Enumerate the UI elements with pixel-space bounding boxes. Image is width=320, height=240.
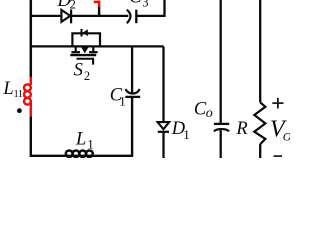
- wire: black stub below red jumper at node: [98, 7, 100, 17]
- wire: top branch right corner turning up (cropped at top): [136, 0, 164, 16]
- transistor S2: gate bar: [77, 58, 95, 60]
- svg-text:o: o: [206, 106, 213, 121]
- transistor S2: source lead and contact foot: [92, 47, 94, 52]
- plus sign of output polarity: [272, 98, 283, 109]
- transistor S2: drain lead and contact foot: [75, 47, 77, 52]
- svg-text:O: O: [283, 129, 290, 143]
- inductor L11 red lower lead: [30, 101, 33, 117]
- wire: D1 column from S2 row down to diode: [162, 46, 164, 121]
- inductor L11 loop 1: [24, 84, 31, 91]
- inductor L1 loop 2: [73, 151, 80, 157]
- svg-text:1: 1: [119, 94, 126, 109]
- svg-text:2: 2: [84, 69, 90, 83]
- diode D1 (hollow, pointing down): [158, 122, 170, 129]
- resistor R zigzag: [254, 102, 265, 144]
- svg-text:L: L: [75, 130, 86, 150]
- capacitor Co straight plate: [214, 123, 229, 125]
- wire: C1 lower lead down to bottom rail: [131, 97, 133, 157]
- wire: Co column lower lead (cropped at bottom): [220, 130, 222, 158]
- wire: body diode loop of S2: [72, 33, 100, 46]
- svg-text:11: 11: [14, 89, 23, 100]
- transistor S2: channel bar: [70, 54, 96, 56]
- capacitor C3 curved plate: [127, 10, 131, 24]
- inductor L1 loop 4: [86, 151, 93, 157]
- inductor L1 loop 1: [66, 151, 73, 157]
- inductor L11 red upper lead: [30, 77, 33, 85]
- inductor L11 loop 2: [24, 91, 31, 98]
- diode: S2 body diode (solid, pointing left): [81, 29, 83, 37]
- svg-text:L: L: [2, 79, 13, 99]
- transistor S2: bulk arrow pointing down: [84, 47, 86, 49]
- svg-text:1: 1: [183, 127, 190, 142]
- capacitor C1 upper lead from S2 row: [131, 47, 133, 92]
- wire: D1 column lower segment (cropped at bottom): [162, 132, 164, 158]
- capacitor C3 straight plate: [135, 10, 137, 24]
- inductor L11 loop 3: [24, 98, 31, 105]
- wire: Co column upper lead: [220, 0, 222, 124]
- wire: left input rail upper segment: [30, 0, 33, 78]
- wire: red jumper going up-left (cropped at top): [94, 2, 99, 7]
- node polarity dot for L11 winding: [17, 108, 22, 113]
- svg-text:3: 3: [142, 0, 148, 9]
- svg-text:C: C: [129, 0, 142, 8]
- wire: top branch from D2 to C3: [71, 15, 128, 17]
- wire: middle branch horizontal (S2 row): [30, 45, 164, 47]
- inductor L1 loop 3: [79, 151, 86, 157]
- svg-text:S: S: [74, 60, 83, 80]
- capacitor Co curved plate: [214, 129, 229, 131]
- wire: R column upper lead: [259, 0, 261, 102]
- diode D2 (hollow, pointing right): [61, 10, 70, 22]
- svg-text:R: R: [235, 119, 247, 139]
- wire: left rail lower segment to bottom corner: [31, 117, 132, 156]
- capacitor C1 curved plate: [126, 89, 140, 94]
- wire: R column lower lead (cropped at bottom): [259, 144, 261, 158]
- transistor S2: gate lead: [92, 59, 94, 65]
- minus sign of output polarity: [274, 155, 283, 157]
- svg-text:1: 1: [87, 136, 94, 151]
- svg-text:2: 2: [70, 0, 76, 11]
- capacitor C1 straight plate: [125, 96, 140, 98]
- wire: top branch horizontal from rail to D2: [30, 15, 62, 17]
